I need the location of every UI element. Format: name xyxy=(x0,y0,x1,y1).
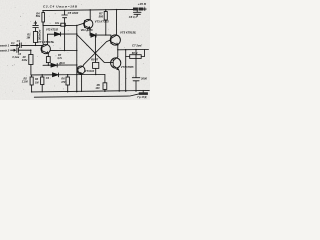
paper background xyxy=(0,0,150,100)
wire from R4 bottom to R5 xyxy=(43,22,61,26)
resistor R7 top xyxy=(105,10,107,12)
svg-text:560кОм: 560кОм xyxy=(38,29,42,40)
resistor R9 bottom xyxy=(103,83,107,90)
resistor R4 xyxy=(42,11,44,13)
capacitor C1 xyxy=(20,43,22,48)
wire VT4 emitter down xyxy=(81,74,83,92)
svg-text:VT2 КТ315: VT2 КТ315 xyxy=(46,28,59,32)
wire VT6 emitter down to bottom rail xyxy=(118,70,121,92)
wire A with diode VD2 xyxy=(43,64,77,66)
diode VD1 (horizontal, to VT5 base) xyxy=(90,35,111,36)
wire VT4 collector up to diagonal xyxy=(82,65,85,67)
svg-text:Д311: Д311 xyxy=(58,62,65,65)
wire: crossing diagonal to VT5 base xyxy=(84,40,111,65)
resistor R3 bottom row 1 xyxy=(31,75,33,77)
resistor R2 xyxy=(30,50,32,54)
transistor VT6 xyxy=(111,58,121,68)
wire VT1 collector up to VD3 wire xyxy=(47,34,49,44)
wire VT5 collector to rail xyxy=(115,10,117,36)
output terminal box bottom right xyxy=(142,91,144,93)
wire: VD1 node down to crossing xyxy=(94,35,96,53)
svg-text:240к: 240к xyxy=(21,59,28,62)
svg-text:470: 470 xyxy=(60,81,66,84)
svg-text:100: 100 xyxy=(95,87,100,90)
scan speckle noise xyxy=(2,3,145,96)
wire B with diode VD4 xyxy=(31,74,105,76)
wire: crossing diagonal to VT6 base xyxy=(77,35,113,63)
svg-text:68 В: 68 В xyxy=(132,51,138,55)
resistor R6 small above wire A xyxy=(46,57,50,63)
capacitor C2 xyxy=(17,48,19,53)
svg-text:0,1мк: 0,1мк xyxy=(12,55,20,59)
svg-text:вход 1: вход 1 xyxy=(0,44,10,48)
svg-text:С5 1000: С5 1000 xyxy=(68,11,79,15)
wire: output line xyxy=(118,49,149,51)
resistor R6b bottom row 3 xyxy=(67,75,69,77)
svg-text:С2,С4 Uвым=19В: С2,С4 Uвым=19В xyxy=(43,5,78,9)
wire C1 to VT1 base xyxy=(21,44,42,46)
wire VT3 emitter down xyxy=(89,28,91,35)
capacitor C8 xyxy=(133,11,141,17)
resistor R11 horizontal (Zobel) xyxy=(130,55,142,59)
resistor R5b bottom row 2 xyxy=(41,75,43,77)
wire R1 bottom to input node xyxy=(35,42,37,45)
junction VD3 wire / trunk xyxy=(76,33,77,34)
wire: vertical trunk x=76.8 xyxy=(76,26,78,92)
svg-text:560: 560 xyxy=(99,15,104,19)
wire: +15V top rail xyxy=(43,9,133,10)
fuse / power connector top right xyxy=(133,8,143,11)
svg-text:1,1М: 1,1М xyxy=(22,80,29,84)
svg-text:Гр 1ГД: Гр 1ГД xyxy=(137,95,146,99)
svg-text:вход 2: вход 2 xyxy=(0,48,10,52)
svg-text:С1: С1 xyxy=(17,39,21,43)
wire R2 bottom to wire B xyxy=(30,65,32,75)
wire with diode VD3 xyxy=(48,33,77,35)
wire VT3 base from left xyxy=(77,23,84,25)
svg-text:0,1: 0,1 xyxy=(11,41,15,45)
wire R7 down to VD1 node xyxy=(105,20,107,35)
wire: bottom rail 1 xyxy=(32,90,150,92)
svg-text:С8 0,1: С8 0,1 xyxy=(129,15,137,19)
diode VD4 xyxy=(53,73,59,77)
wire: vertical x=43 down to VT1 xyxy=(42,22,44,45)
resistor R5 (horizontal) xyxy=(61,23,66,26)
diode VD2 xyxy=(51,63,57,67)
svg-text:4,7к: 4,7к xyxy=(56,57,62,60)
transistor VT5 xyxy=(110,35,120,45)
svg-text:R8 47: R8 47 xyxy=(91,57,99,61)
wire: bottom rail 2 xyxy=(34,94,139,97)
resistor R8 xyxy=(93,62,99,68)
diode VD3 xyxy=(55,32,61,36)
plus terminal mark xyxy=(143,8,146,11)
svg-text:VT5 КТ815Б: VT5 КТ815Б xyxy=(120,30,136,34)
capacitor C5 electrolytic xyxy=(62,10,68,50)
svg-text:С3: С3 xyxy=(34,21,38,25)
capacitor C3 xyxy=(33,21,39,32)
svg-text:VT3 КТ315: VT3 КТ315 xyxy=(95,20,109,24)
wire VT3 collector to rail xyxy=(89,10,91,20)
svg-text:+15 В: +15 В xyxy=(138,2,147,6)
svg-text:С7 2мк: С7 2мк xyxy=(132,44,142,48)
svg-text:56к: 56к xyxy=(36,14,41,18)
svg-text:VT7 КТ805: VT7 КТ805 xyxy=(121,66,134,69)
wire R5 to VT3 base node xyxy=(65,25,77,27)
transistor VT3 xyxy=(84,19,93,28)
wire C2 to R2 xyxy=(19,49,31,51)
resistor R1 xyxy=(33,32,37,43)
wire: mid rail xyxy=(50,50,76,52)
svg-text:VT1 КТ315Б: VT1 КТ315Б xyxy=(38,40,54,44)
svg-text:2000: 2000 xyxy=(140,77,147,81)
transistor VT4 xyxy=(77,66,85,74)
wire: vertical x=125.7 output to bottom rail xyxy=(125,50,127,91)
svg-text:VD1 Д226: VD1 Д226 xyxy=(81,28,94,32)
transistor VT1 xyxy=(41,44,50,53)
svg-text:КТ3102: КТ3102 xyxy=(85,69,95,73)
wire VT5 emitter down through output node xyxy=(117,45,119,57)
capacitor C7 electrolytic output xyxy=(132,50,140,91)
